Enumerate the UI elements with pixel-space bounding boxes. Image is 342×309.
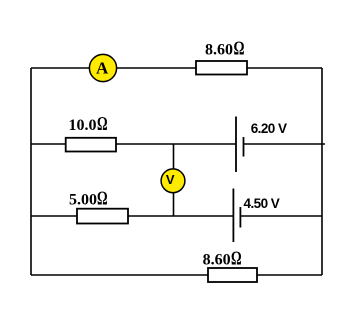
wire: voltmeter branch	[173, 144, 175, 216]
ammeter A	[89, 54, 116, 81]
battery B2 4.50 V short plate	[239, 207, 241, 228]
wire: bottom horizontal	[31, 274, 322, 276]
resistor R 10.0 ohm	[66, 138, 116, 152]
wire: top horizontal	[31, 67, 322, 69]
svg-text:5.00: 5.00	[69, 192, 97, 209]
svg-text:8.60: 8.60	[203, 252, 231, 269]
svg-text:8.60: 8.60	[205, 42, 233, 59]
wire: second row left segment	[31, 143, 236, 145]
svg-text:Ω: Ω	[97, 188, 108, 210]
battery B2 4.50 V long plate	[232, 189, 234, 243]
resistor R 5.00 ohm	[77, 209, 128, 224]
wire: left vertical	[30, 68, 32, 275]
svg-text:Ω: Ω	[97, 113, 108, 135]
svg-text:10.0: 10.0	[69, 117, 97, 134]
svg-text:A: A	[96, 59, 109, 78]
svg-text:6.20 V: 6.20 V	[251, 121, 287, 136]
wire: second row right segment	[244, 143, 326, 145]
svg-text:Ω: Ω	[231, 248, 242, 270]
battery B1 6.20 V short plate	[243, 137, 245, 157]
svg-text:Ω: Ω	[234, 38, 245, 60]
wire: right vertical	[321, 68, 323, 275]
wire: third row right segment	[240, 215, 322, 217]
wire: third row left segment	[31, 215, 233, 217]
svg-text:4.50 V: 4.50 V	[244, 196, 280, 211]
voltmeter V	[161, 169, 185, 193]
resistor R bottom 8.60 ohm	[208, 268, 257, 282]
svg-text:V: V	[166, 172, 175, 187]
battery B1 6.20 V long plate	[235, 117, 237, 173]
resistor R top 8.60 ohm	[196, 61, 247, 75]
